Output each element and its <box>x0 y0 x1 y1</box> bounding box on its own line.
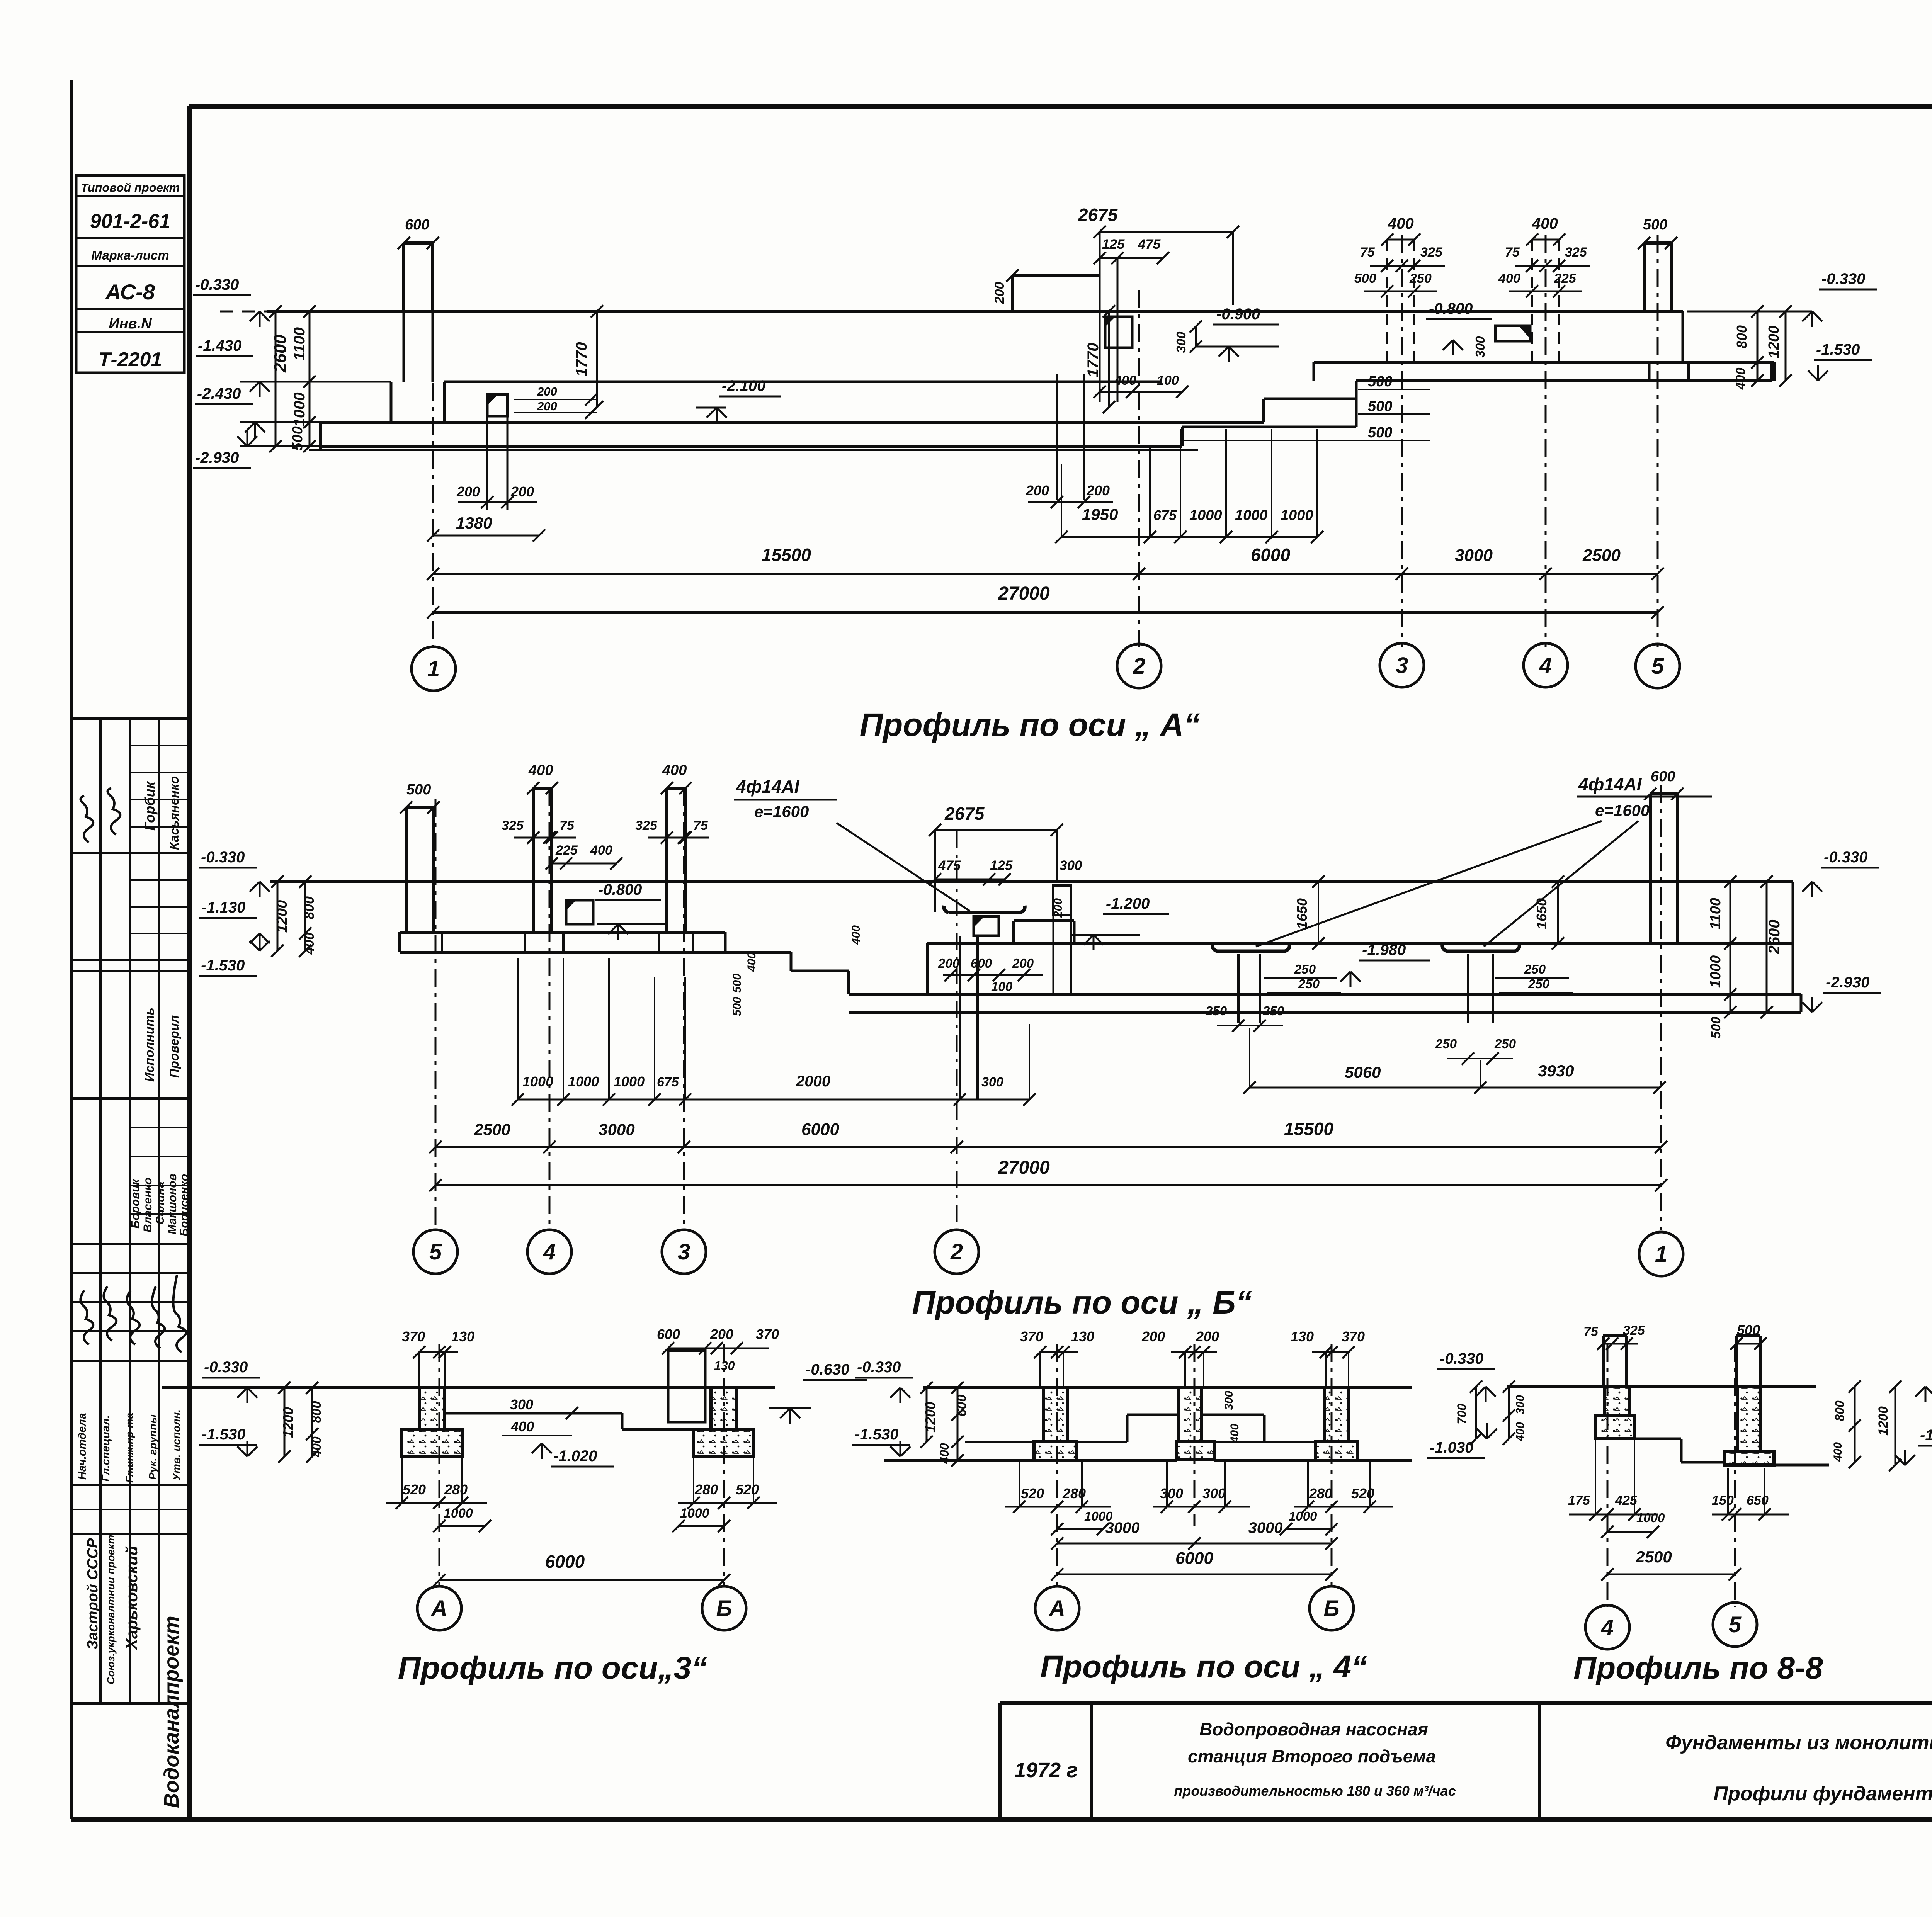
svg-text:3000: 3000 <box>1105 1519 1140 1536</box>
svg-text:3930: 3930 <box>1538 1062 1574 1080</box>
profile B left dim 800-400 <box>304 882 306 951</box>
svg-text:2500: 2500 <box>1582 546 1621 565</box>
pit2B dim below <box>1217 1025 1283 1026</box>
profile 8-8 left dims 300-400 <box>1508 1387 1510 1439</box>
profile B deep slab mid line <box>849 993 1801 996</box>
pit3 rect axis4 <box>1495 326 1530 341</box>
svg-text:800: 800 <box>301 896 317 919</box>
signature sub row line <box>130 1185 189 1186</box>
axis line A3 dash-dot <box>439 1344 440 1586</box>
signature sub row line <box>71 1533 189 1535</box>
signature sub row line <box>130 745 189 746</box>
svg-text:-0.330: -0.330 <box>857 1359 901 1376</box>
svg-text:1000: 1000 <box>444 1506 473 1521</box>
svg-text:475: 475 <box>1138 237 1161 252</box>
svg-text:200: 200 <box>992 282 1007 304</box>
signature block column line <box>158 719 160 1703</box>
dim row 1950-675-1000-1000-1000 <box>1061 536 1317 538</box>
svg-text:75: 75 <box>1360 245 1375 260</box>
profile A leader line -2.930 <box>240 445 320 447</box>
signature sub row line <box>71 1272 189 1274</box>
signature squiggle <box>104 1286 116 1341</box>
svg-text:-1.430: -1.430 <box>198 337 241 354</box>
pit1 axis1 area <box>487 394 507 416</box>
profile A right slab bottom <box>1356 379 1772 382</box>
profile B shallow slab bottom <box>400 951 791 954</box>
signature sub row line <box>71 1330 189 1332</box>
profile 8-8 dim 2500 <box>1607 1574 1735 1575</box>
pit3B dim below <box>1447 1058 1513 1059</box>
signature block row line <box>71 1097 189 1100</box>
svg-text:2600: 2600 <box>1766 920 1783 955</box>
svg-text:280: 280 <box>1309 1485 1332 1501</box>
svg-text:425: 425 <box>1615 1493 1638 1508</box>
profile A leader line -1.430 <box>240 381 391 383</box>
svg-text:4: 4 <box>1601 1615 1614 1640</box>
profile A leader line -2.430 <box>240 421 320 423</box>
svg-text:200: 200 <box>1141 1329 1165 1344</box>
axis3 hidden column lines <box>1386 240 1388 363</box>
profile 4 dim 1000 a <box>1057 1528 1103 1530</box>
footing A3 column <box>419 1388 445 1429</box>
svg-text:1972 г: 1972 г <box>1014 1759 1078 1782</box>
svg-text:Профиль по оси„3“: Профиль по оси„3“ <box>398 1650 707 1686</box>
svg-text:300: 300 <box>510 1397 533 1412</box>
profile A left dim line 2600 <box>275 311 277 446</box>
svg-text:175: 175 <box>1568 1493 1590 1508</box>
axis circle A4 <box>1035 1586 1079 1630</box>
svg-text:2000: 2000 <box>796 1073 830 1090</box>
svg-text:27000: 27000 <box>998 1157 1050 1178</box>
svg-text:-1.980: -1.980 <box>1362 942 1406 958</box>
svg-text:1200: 1200 <box>280 1407 296 1438</box>
svg-text:-1.530: -1.530 <box>202 1426 245 1443</box>
svg-text:-2.430: -2.430 <box>197 385 241 402</box>
stamp table row line <box>76 237 184 239</box>
axis line 3B dash-dot <box>683 788 685 1230</box>
profile A step v4 <box>1313 362 1315 381</box>
stamp table row line <box>76 308 184 310</box>
svg-text:650: 650 <box>1747 1493 1769 1508</box>
profile A right slab top <box>1314 361 1774 364</box>
footing 5-8 column <box>1738 1387 1761 1452</box>
profile 8-8 dim 1200 <box>1895 1387 1896 1465</box>
profile 3 dim 1000 right <box>679 1525 724 1527</box>
profile B right dim stack <box>1730 882 1731 1012</box>
drawing frame bottom edge <box>71 1817 1932 1822</box>
svg-text:75: 75 <box>693 818 708 833</box>
profile 4 bottom dims A <box>1019 1460 1020 1507</box>
svg-text:-2.930: -2.930 <box>1826 974 1869 991</box>
pit2 upper rect <box>1105 317 1132 348</box>
svg-text:300: 300 <box>1160 1485 1183 1501</box>
profile 3 dim 6000 <box>439 1579 724 1581</box>
svg-text:1000: 1000 <box>568 1074 599 1089</box>
profile A level line -1.430 <box>444 381 1161 383</box>
svg-text:Инв.N: Инв.N <box>109 316 152 332</box>
svg-text:-1.200: -1.200 <box>1106 895 1150 912</box>
svg-text:520: 520 <box>736 1482 759 1497</box>
svg-text:Нач.отдела: Нач.отдела <box>76 1413 88 1480</box>
profile A step h1 <box>1182 426 1356 428</box>
column axis4 profile B <box>532 788 535 932</box>
svg-text:400: 400 <box>310 1436 323 1458</box>
axis line 5-8 dash-dot <box>1734 1344 1736 1607</box>
svg-text:300: 300 <box>1514 1395 1527 1414</box>
profile A ground line -0.330 <box>220 311 267 313</box>
profile 4 dim 6000 <box>1057 1574 1332 1575</box>
svg-text:Профиль по оси „ Б“: Профиль по оси „ Б“ <box>912 1284 1252 1320</box>
profile B right end wall <box>1792 882 1794 994</box>
svg-text:280: 280 <box>694 1482 718 1497</box>
signature block row line <box>71 1484 189 1486</box>
profile A slab top -2.430 <box>320 421 1264 424</box>
pit2 dim 200-200 below <box>1028 501 1113 503</box>
svg-text:15500: 15500 <box>1284 1119 1333 1139</box>
svg-text:3000: 3000 <box>599 1120 634 1139</box>
svg-text:1650: 1650 <box>1534 898 1549 929</box>
cbar symbol pit2B <box>1213 944 1290 951</box>
svg-text:200: 200 <box>1012 956 1034 970</box>
parapet step 200 <box>1012 274 1100 277</box>
profile B stair v3 <box>847 971 850 994</box>
profile A dim row 15500-6000-3000-2500 <box>433 573 1658 575</box>
profile 8-8 bottom right line <box>1774 1464 1829 1467</box>
svg-text:4: 4 <box>543 1239 556 1264</box>
pedestal line axis5B <box>441 932 443 952</box>
profile 8-8 mid line <box>1634 1438 1681 1440</box>
pedestal axis1 <box>390 382 393 422</box>
svg-text:600: 600 <box>1651 768 1675 785</box>
dim 1770 left <box>596 311 598 407</box>
svg-text:2: 2 <box>1133 654 1145 679</box>
step label 500 b <box>1358 413 1430 415</box>
title block divider <box>1538 1703 1541 1819</box>
axis circle 5-8 <box>1713 1603 1757 1647</box>
svg-text:А: А <box>430 1596 447 1621</box>
axis circle B3 <box>702 1586 746 1630</box>
svg-text:325: 325 <box>1623 1323 1645 1338</box>
svg-text:400: 400 <box>1514 1422 1527 1442</box>
profile B dim row 27000 <box>435 1184 1661 1186</box>
svg-text:27000: 27000 <box>998 583 1050 604</box>
svg-text:325: 325 <box>1565 245 1587 260</box>
profile 4 bottom level line <box>884 1459 1034 1462</box>
pit axis2B block <box>974 916 999 936</box>
axis line 4-8 dash-dot <box>1607 1344 1609 1607</box>
signature squiggle <box>173 1275 186 1352</box>
svg-text:400: 400 <box>1498 271 1520 286</box>
svg-text:1200: 1200 <box>1876 1406 1891 1436</box>
cbar symbol axis2B <box>944 906 1025 913</box>
profile 3 mid step v <box>621 1413 624 1429</box>
svg-text:-0.330: -0.330 <box>201 849 245 866</box>
svg-text:-1.130: -1.130 <box>202 899 245 916</box>
svg-text:5: 5 <box>429 1239 442 1264</box>
dim row extension lines <box>1061 464 1062 537</box>
dim row 5060-3930 <box>1250 1087 1660 1089</box>
footing M4 base <box>1177 1442 1214 1459</box>
svg-text:4ф14АІ: 4ф14АІ <box>736 777 800 797</box>
svg-text:280: 280 <box>1062 1485 1086 1501</box>
svg-text:225: 225 <box>555 843 578 858</box>
signature block row line <box>71 1702 189 1705</box>
profile B deep slab bottom <box>849 1011 1801 1014</box>
axis line 1B dash-dot <box>1660 785 1662 1230</box>
svg-text:Борисенко: Борисенко <box>178 1174 190 1236</box>
profile A slab bottom -2.930 <box>320 445 1182 448</box>
axis circle 2B <box>935 1230 979 1274</box>
pit axis2B shaft <box>959 936 961 1100</box>
drawing frame top edge <box>189 104 1932 109</box>
stamp table row line <box>76 195 184 197</box>
svg-text:-0.330: -0.330 <box>1824 849 1867 866</box>
svg-text:Силина: Силина <box>154 1181 167 1225</box>
svg-text:6000: 6000 <box>801 1120 839 1139</box>
svg-text:Типовой проект: Типовой проект <box>81 181 180 194</box>
svg-text:Профили фундаментов: Профили фундаментов <box>1714 1783 1932 1805</box>
svg-text:Водопроводная насосная: Водопроводная насосная <box>1199 1719 1428 1739</box>
signature squiggle <box>80 796 93 842</box>
axis2 extension lines <box>1099 232 1101 402</box>
svg-text:Гл.инж.пр-та: Гл.инж.пр-та <box>124 1413 135 1483</box>
svg-text:1000: 1000 <box>680 1506 709 1521</box>
profile 4 mid platform a <box>1127 1414 1178 1416</box>
pit2 shaft lines <box>1056 374 1058 500</box>
svg-text:1200: 1200 <box>274 900 290 933</box>
profile 3 left dim 1200 <box>284 1388 286 1456</box>
svg-text:520: 520 <box>1021 1485 1044 1501</box>
axis line A4 dash-dot <box>1056 1344 1058 1586</box>
column axis1 profile B <box>1649 794 1652 943</box>
svg-text:2500: 2500 <box>474 1120 510 1139</box>
svg-text:-0.630: -0.630 <box>806 1361 849 1378</box>
svg-text:3000: 3000 <box>1248 1519 1283 1536</box>
signature block row line <box>71 959 189 961</box>
svg-text:6000: 6000 <box>545 1552 585 1572</box>
svg-text:400: 400 <box>1228 1424 1241 1443</box>
svg-text:325: 325 <box>502 818 524 833</box>
svg-text:500: 500 <box>1737 1322 1760 1338</box>
svg-text:250: 250 <box>1205 1004 1227 1018</box>
svg-text:e=1600: e=1600 <box>754 802 809 821</box>
step label 500 c <box>1184 440 1430 441</box>
svg-text:400: 400 <box>850 925 862 945</box>
svg-text:200: 200 <box>1026 483 1049 498</box>
svg-text:800: 800 <box>1734 325 1750 348</box>
svg-text:500: 500 <box>1368 398 1392 415</box>
profile 4 ground line <box>923 1386 1412 1389</box>
title block divider <box>1090 1703 1093 1819</box>
profile B platform left v <box>926 943 929 994</box>
svg-text:901-2-61: 901-2-61 <box>90 210 170 233</box>
footing 5-8 base <box>1725 1452 1774 1465</box>
svg-text:-0.330: -0.330 <box>1440 1350 1483 1367</box>
svg-text:Фундаменты из монолитного б: Фундаменты из монолитного бетона. <box>1665 1732 1932 1754</box>
svg-text:5: 5 <box>1729 1612 1742 1637</box>
svg-text:500: 500 <box>731 997 743 1016</box>
svg-text:300: 300 <box>1060 858 1082 873</box>
svg-text:100: 100 <box>1157 373 1179 388</box>
signature block column line <box>129 719 131 1703</box>
profile B foundation left edge <box>398 932 401 952</box>
footing A4 column <box>1043 1388 1068 1442</box>
signature squiggle <box>152 1286 165 1348</box>
step label 500 a <box>1358 389 1430 390</box>
signature block row line <box>71 970 189 972</box>
drawing frame left edge <box>187 106 192 1819</box>
svg-text:1000: 1000 <box>1235 507 1268 523</box>
axis2B extension lines <box>934 830 936 912</box>
svg-text:130: 130 <box>1291 1329 1314 1344</box>
signature squiggle <box>107 788 120 834</box>
svg-text:1000: 1000 <box>1636 1511 1665 1525</box>
svg-text:1950: 1950 <box>1082 505 1118 523</box>
profile A step h2 <box>1264 398 1356 400</box>
profile A right slab edge <box>1770 362 1773 381</box>
svg-text:Профиль по оси „ 4“: Профиль по оси „ 4“ <box>1040 1649 1367 1684</box>
profile A step v3 <box>1355 381 1358 427</box>
svg-text:Харьковский: Харьковский <box>122 1546 141 1650</box>
svg-text:-0.800: -0.800 <box>598 881 642 898</box>
axis line 4B dash-dot <box>549 788 551 1230</box>
profile 4 left dim 600-400 <box>957 1388 959 1460</box>
svg-text:400: 400 <box>1388 215 1414 232</box>
svg-text:500: 500 <box>731 974 743 993</box>
axis circle 4B <box>527 1230 571 1274</box>
stamp table row line <box>76 265 184 267</box>
profile A right dim 1200 <box>1785 311 1787 381</box>
svg-text:Водоканалпроект: Водоканалпроект <box>160 1616 183 1808</box>
svg-text:А: А <box>1048 1596 1065 1621</box>
profile A slab left edge <box>319 422 322 450</box>
pit1 extension lines <box>486 416 488 510</box>
profile A right wall end <box>1682 311 1684 362</box>
svg-text:400: 400 <box>662 762 687 778</box>
footing A3 base <box>402 1429 462 1456</box>
svg-text:Гл.специал.: Гл.специал. <box>100 1415 112 1482</box>
svg-text:1: 1 <box>427 656 440 681</box>
axis line 3 dash-dot <box>1401 235 1403 647</box>
axis circle 1B <box>1639 1232 1683 1276</box>
svg-text:200: 200 <box>710 1326 733 1342</box>
profile B right slab edge <box>1800 994 1803 1012</box>
svg-text:2600: 2600 <box>271 335 290 373</box>
svg-text:225: 225 <box>1554 271 1577 286</box>
svg-text:Союз.укрконалтнии проект: Союз.укрконалтнии проект <box>105 1535 117 1684</box>
svg-text:4: 4 <box>1539 653 1552 678</box>
svg-text:Профиль по 8-8: Профиль по 8-8 <box>1573 1650 1823 1686</box>
svg-text:500: 500 <box>1368 374 1392 390</box>
svg-text:400: 400 <box>1114 373 1136 388</box>
svg-text:2500: 2500 <box>1635 1548 1672 1566</box>
signature block row line <box>71 1360 189 1362</box>
svg-text:400: 400 <box>1532 215 1558 232</box>
column axis1 below ground <box>403 311 405 382</box>
svg-text:250: 250 <box>1494 1037 1516 1051</box>
svg-text:520: 520 <box>1351 1485 1374 1501</box>
profile 3 bottom dims right <box>693 1456 694 1503</box>
pit3B shaft <box>1467 954 1469 1023</box>
signature sub row line <box>71 1301 189 1303</box>
svg-text:-1.020: -1.020 <box>553 1448 597 1465</box>
axis line 2 dash-dot <box>1138 290 1140 647</box>
svg-text:1100: 1100 <box>1708 898 1724 930</box>
signature sub row line <box>130 879 189 881</box>
profile 3 ground line <box>162 1386 775 1389</box>
axis line B3 dash-dot <box>723 1344 725 1586</box>
signature sub row line <box>130 826 189 828</box>
svg-text:1770: 1770 <box>573 342 590 377</box>
svg-text:300: 300 <box>1202 1485 1226 1501</box>
svg-text:250: 250 <box>1262 1004 1284 1018</box>
svg-text:2675: 2675 <box>1078 205 1118 225</box>
svg-text:5: 5 <box>1651 654 1664 679</box>
pit1 dim 200 upper <box>514 399 597 400</box>
svg-text:-0.800: -0.800 <box>1429 300 1473 317</box>
svg-text:-0.330: -0.330 <box>204 1359 248 1376</box>
signature squiggle <box>80 1290 93 1344</box>
pedestal line axis3B <box>658 932 660 952</box>
profile 8-8 right dim stack <box>1854 1387 1856 1462</box>
column 5-8 above ground <box>1735 1336 1738 1387</box>
svg-text:500: 500 <box>1368 425 1392 441</box>
svg-text:-2.930: -2.930 <box>195 449 239 466</box>
title block top edge <box>1000 1701 1932 1705</box>
svg-text:150: 150 <box>1712 1493 1734 1508</box>
svg-text:700: 700 <box>1455 1404 1469 1424</box>
signature block row line <box>71 1243 189 1245</box>
svg-text:-1.530: -1.530 <box>1920 1427 1932 1444</box>
profile 4 left dim 1200 <box>926 1388 928 1442</box>
notch -1.200 <box>1014 919 1074 922</box>
svg-text:Б: Б <box>716 1596 732 1621</box>
svg-text:370: 370 <box>1020 1329 1043 1344</box>
svg-text:200: 200 <box>456 484 480 500</box>
svg-text:300: 300 <box>1473 336 1487 358</box>
dim 1650 right <box>1557 882 1559 943</box>
signature block row line <box>71 852 189 854</box>
axis line 1 dash-dot <box>432 247 434 647</box>
svg-text:2675: 2675 <box>944 804 985 824</box>
profile B stair v2 <box>790 952 793 971</box>
rebar leader right 1 <box>1256 821 1602 947</box>
svg-text:370: 370 <box>756 1326 779 1342</box>
profile 4 dim 3000-3000 <box>1057 1543 1332 1545</box>
svg-text:3: 3 <box>678 1239 690 1264</box>
profile A slab lip line <box>309 449 1198 451</box>
svg-text:-1.530: -1.530 <box>855 1426 898 1443</box>
svg-text:1000: 1000 <box>1189 507 1222 523</box>
axis circle 3 <box>1380 643 1424 687</box>
axis circle 5 <box>1636 644 1680 688</box>
svg-text:4ф14АІ: 4ф14АІ <box>1578 774 1642 794</box>
dim 1650 left <box>1318 882 1319 943</box>
svg-text:1000: 1000 <box>522 1074 553 1089</box>
svg-text:1200: 1200 <box>922 1402 938 1433</box>
svg-text:400: 400 <box>1733 368 1748 390</box>
svg-text:производительностью 180 и 360: производительностью 180 и 360 м³/час <box>1174 1783 1456 1799</box>
svg-text:400: 400 <box>745 952 758 972</box>
pit rect B3 <box>668 1351 705 1422</box>
svg-text:200: 200 <box>510 484 534 500</box>
svg-text:Горбик: Горбик <box>142 781 158 831</box>
axis line 5B dash-dot <box>435 799 437 1230</box>
pit axis4B rect <box>566 900 593 924</box>
svg-text:400: 400 <box>1832 1442 1844 1462</box>
svg-text:Боровик: Боровик <box>129 1178 142 1229</box>
svg-text:300: 300 <box>981 1075 1003 1089</box>
